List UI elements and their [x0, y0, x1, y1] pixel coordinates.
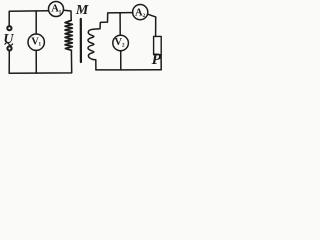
- wire voltmeter branch lower (right circuit): [120, 51, 122, 70]
- terminal upper (source): [7, 26, 11, 30]
- svg-text:1: 1: [38, 41, 41, 47]
- wire secondary coil bottom to bottom-left corner: [93, 60, 96, 70]
- voltmeter V1 (left circuit): [28, 34, 44, 50]
- wire primary coil bottom to bottom-left corner: [9, 50, 71, 73]
- transformer core: [80, 19, 82, 62]
- svg-text:M: M: [75, 3, 89, 18]
- svg-text:P: P: [152, 51, 162, 68]
- inductor secondary coil: [88, 29, 94, 59]
- resistor P box: [154, 36, 162, 54]
- wire resistor bottom to bottom wire (right edge lower): [160, 55, 162, 70]
- AC tilde under U: [5, 43, 13, 46]
- svg-text:2: 2: [143, 13, 146, 19]
- wire left edge lower (bottom terminal to bottom wire): [8, 51, 10, 73]
- wire secondary coil top staircase to ammeter: [93, 13, 133, 30]
- wire right-circuit bottom: [96, 69, 161, 71]
- ammeter A1 (left circuit): [49, 2, 64, 17]
- wire ammeter to primary coil top: [64, 10, 71, 20]
- wire voltmeter branch lower (left circuit): [35, 51, 37, 74]
- svg-text:2: 2: [122, 43, 125, 49]
- ammeter A2 (right circuit): [133, 5, 148, 20]
- svg-text:1: 1: [59, 9, 62, 15]
- wire voltmeter branch upper (right circuit): [119, 13, 121, 35]
- terminal lower (source): [7, 46, 11, 50]
- voltmeter V2 (right circuit): [113, 35, 129, 51]
- inductor primary coil: [65, 20, 72, 50]
- wire ammeter to resistor (right edge upper): [148, 14, 156, 36]
- wire voltmeter branch upper (left circuit): [35, 11, 37, 34]
- wire left-circuit top (top-left corner to ammeter): [9, 11, 48, 26]
